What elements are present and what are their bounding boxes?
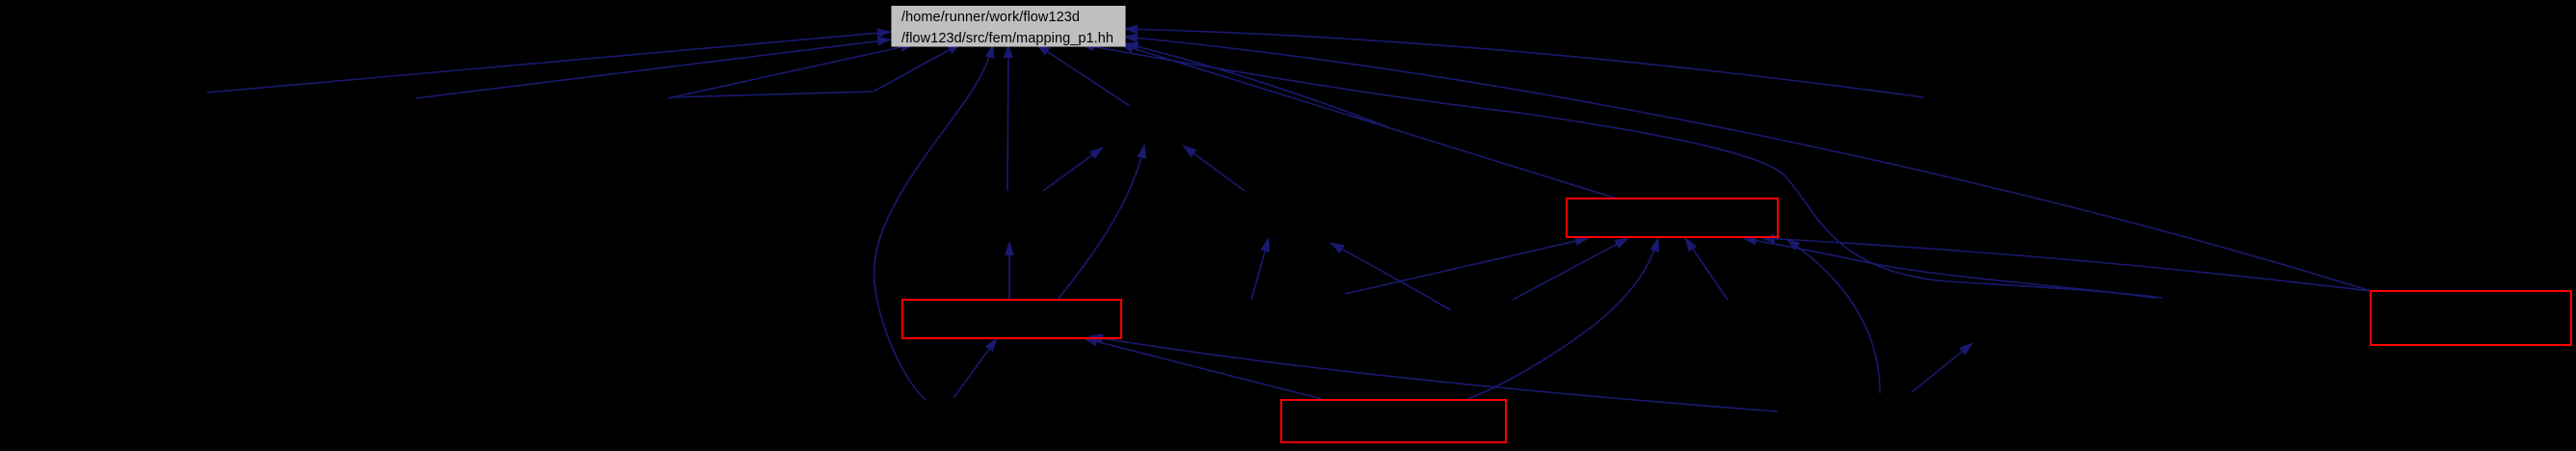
node: current file mapping_p1.hh (grey) <box>892 7 1125 47</box>
wire: edge from node Z1 top to node N1 <box>1183 146 1245 191</box>
wire: edge from left node 3 to mapping_p1.hh bottom edge <box>668 44 914 98</box>
node: red box B <box>902 300 1121 338</box>
wire: vertical edge from invisible node X to mapping_p1.hh <box>1007 44 1008 191</box>
wire: edge from invisible node N1 to mapping_p1.hh <box>1036 44 1130 106</box>
wire: edge from node to box A bottom-left <box>1345 238 1589 294</box>
node: red box A <box>1567 199 1778 237</box>
wire: long sag edge from right node to box A bottom <box>1743 238 2155 298</box>
wire: flat connector segment between left nodes <box>670 92 872 97</box>
wire: edge from box B top to node X <box>1008 242 1010 300</box>
wire: short curved edge from node at (1440,132) to mapping_p1.hh corner <box>1125 43 1388 127</box>
wire: edge from bottom node to right invisible node <box>1912 343 1972 392</box>
wire: edge from box C top to box B bottom <box>1084 338 1322 399</box>
wire: edge from far-left node 2 to mapping_p1.hh left edge <box>416 40 891 98</box>
wire: long flat edge from bottom-right to box B bottom <box>1089 336 1778 411</box>
wire: big left parabola edge from bottom node V to mapping_p1.hh <box>874 44 993 400</box>
node: red box D <box>2371 291 2571 345</box>
wire: edge from far-left node 1 to mapping_p1.hh left edge <box>207 32 891 93</box>
wire: curved edge from box B top to node N1 <box>1058 145 1144 300</box>
wire: edge from node to node Z1 bottom <box>1330 243 1451 310</box>
wire: long edge R1 from right node to mapping_p1.hh right edge <box>1124 29 1923 97</box>
wire: edge from box D corner to box A bottom <box>1761 238 2371 291</box>
wire: edge from node to box A bottom <box>1513 238 1628 300</box>
wire: edge from node Z2 to node Z1 <box>1251 238 1269 300</box>
wire: long S-curve edge from right node to mapping_p1.hh bottom <box>1081 44 2162 298</box>
wire: edge from node to box A bottom <box>1685 238 1728 300</box>
wire: edge from node V to box B bottom <box>953 338 997 398</box>
wire: edge from box A top-left to mapping_p1.hh bottom <box>1120 44 1617 199</box>
svg-text:/flow123d/src/fem/mapping_p1.h: /flow123d/src/fem/mapping_p1.hh <box>901 31 1114 46</box>
wire: edge from node below-left to mapping_p1.hh bottom edge <box>873 43 961 92</box>
wire: long edge R2 from box D corner to mapping_p1.hh right edge <box>1124 37 2371 291</box>
wire: steep curved edge from bottom-right node to box A corner <box>1786 239 1880 393</box>
wire: big curve from box C top to box A bottom <box>1467 238 1658 399</box>
node: red box C <box>1281 400 1506 442</box>
wire: edge from node X to node N1 <box>1043 147 1103 191</box>
svg-text:/home/runner/work/flow123d: /home/runner/work/flow123d <box>901 10 1080 25</box>
